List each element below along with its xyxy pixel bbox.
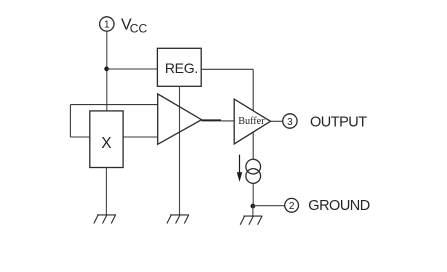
svg-text:GROUND: GROUND — [308, 198, 369, 214]
voltage regulator REG — [157, 48, 201, 86]
wire current source to ground node — [252, 183, 254, 206]
wire output rail vertical (REG to current source) — [252, 69, 254, 159]
wire crystal to ground — [105, 168, 107, 215]
label VCC — [121, 17, 147, 36]
current direction arrow — [237, 155, 242, 182]
svg-text:OUTPUT: OUTPUT — [310, 114, 367, 130]
ground symbol (crystal) — [94, 215, 116, 224]
wire amplifier output lead — [202, 119, 221, 121]
crystal X1 — [90, 111, 123, 168]
wire VCC vertical to crystal — [106, 31, 108, 111]
junction dot VCC node — [104, 67, 109, 72]
wire REG ground vertical — [179, 86, 181, 215]
current source I1 — [246, 159, 261, 183]
pin 1 terminal (VCC) — [100, 17, 114, 31]
oscillator amplifier A1 — [158, 94, 202, 144]
wire buffer to pin 3 — [271, 120, 283, 122]
wire ground node to pin 2 — [253, 205, 285, 207]
junction dot ground node — [251, 204, 256, 209]
pin 3 terminal (OUTPUT) — [283, 114, 297, 128]
wire VCC node to REG — [107, 68, 158, 70]
svg-text:REG.: REG. — [165, 60, 198, 76]
svg-text:2: 2 — [289, 201, 295, 212]
svg-text:1: 1 — [104, 20, 110, 31]
svg-text:CC: CC — [130, 21, 148, 35]
wire loop to crystal left — [70, 136, 89, 138]
wire to buffer input — [221, 120, 234, 122]
svg-text:X: X — [101, 135, 112, 152]
pin 2 terminal (GROUND) — [285, 198, 299, 212]
wire feedback loop top — [70, 104, 157, 106]
wire crystal right to amplifier — [123, 136, 158, 138]
wire REG to output rail — [201, 68, 253, 70]
wire feedback loop left — [69, 105, 71, 137]
wire ground node to ground symbol — [252, 206, 254, 216]
svg-text:3: 3 — [287, 117, 293, 128]
buffer amplifier U2 — [234, 99, 270, 144]
ground symbol (REG/amplifier) — [167, 215, 189, 224]
ground symbol (pin 2 node) — [240, 216, 262, 225]
svg-text:Buffer: Buffer — [238, 116, 265, 127]
